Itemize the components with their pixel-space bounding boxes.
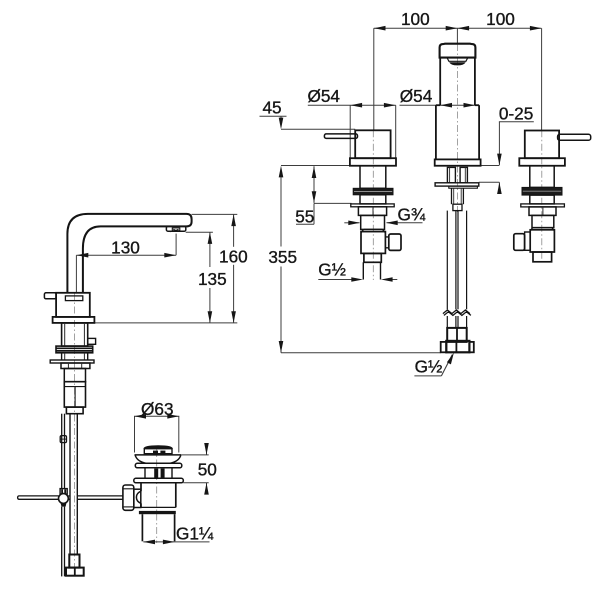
horizontal pop-up rod	[18, 496, 123, 499]
spout cap	[440, 44, 476, 58]
dimension 100/100 top line	[374, 28, 542, 130]
waste washer bar	[135, 463, 182, 468]
dimension 355 (shares top arrow with 45)	[281, 177, 441, 353]
spout mounting nut (right pipe)	[460, 167, 467, 182]
mounting nut (side)	[61, 363, 90, 369]
pop-up pull rod (vertical)	[62, 414, 65, 577]
dimension 160	[192, 214, 238, 323]
bottom block (side)	[66, 407, 83, 414]
svg-text:135: 135	[198, 269, 227, 289]
svg-text:Ø63: Ø63	[141, 399, 174, 419]
label G1 1/4 with dimension	[143, 541, 209, 543]
handle slot detail	[65, 296, 82, 301]
svg-text:G1¼: G1¼	[176, 524, 214, 544]
centerline spout	[456, 44, 458, 212]
left handle mounting nut	[358, 207, 386, 216]
left handle valve body	[361, 229, 385, 232]
right handle thread section	[532, 215, 554, 227]
right handle escutcheon flange	[519, 158, 565, 166]
seal stack (side)	[56, 346, 93, 353]
spout outline (side)	[67, 214, 191, 293]
dimension 135	[186, 232, 213, 323]
spout lower column (base sleeve)	[436, 105, 479, 159]
dimension Ø54 (spout)	[400, 104, 477, 106]
left handle G1/2 thread pipe	[363, 262, 380, 279]
right handle mounting washer	[521, 204, 565, 207]
centerline left handle	[372, 130, 374, 280]
left handle lever	[324, 134, 357, 139]
valve body (side)	[64, 382, 85, 407]
shank (side, double wall)	[62, 323, 88, 346]
spout mounting nut (left pipe)	[447, 167, 455, 182]
spout supply hoses	[447, 211, 466, 328]
drain centerline	[156, 446, 158, 543]
dimension 100 arrows	[374, 26, 542, 31]
shank below seals	[62, 353, 88, 360]
svg-text:100: 100	[401, 9, 430, 29]
dimension 45	[260, 116, 356, 165]
spout stud nut	[453, 204, 462, 210]
svg-text:130: 130	[111, 238, 140, 258]
spout aerator (side)	[166, 226, 185, 231]
centerline right handle	[541, 130, 543, 262]
dimension 130	[76, 234, 176, 292]
right handle outlet block	[514, 234, 525, 251]
right handle seal nut (dark)	[522, 187, 562, 195]
svg-text:50: 50	[198, 459, 217, 479]
ball joint	[59, 494, 69, 504]
left handle bottom stub	[364, 253, 381, 262]
svg-text:G½: G½	[318, 260, 346, 280]
hose break symbol	[443, 310, 470, 314]
thread section (side)	[64, 369, 85, 382]
side outlet tab	[88, 338, 96, 344]
right handle shank lower	[530, 195, 554, 204]
spout threaded stud	[452, 188, 464, 204]
waste body divider	[141, 506, 176, 508]
left handle shank lower	[360, 195, 386, 204]
spout G1/2 end cap	[446, 341, 469, 352]
svg-text:45: 45	[262, 98, 281, 118]
waste threaded neck	[145, 468, 172, 479]
handle lever tab (side)	[44, 293, 56, 299]
rod housing bulge	[136, 491, 141, 503]
label G1/2 (bottom, leader)	[441, 355, 452, 376]
funnel sides	[135, 455, 181, 463]
waste lower flange	[134, 478, 184, 483]
tailpipe	[142, 514, 174, 541]
rod housing cap nut	[123, 485, 134, 510]
svg-text:G½: G½	[415, 356, 443, 376]
svg-text:160: 160	[219, 247, 248, 267]
spout clamp plate	[435, 183, 479, 186]
svg-text:355: 355	[268, 247, 297, 267]
left handle seal nut (dark)	[353, 188, 393, 195]
left handle mounting washer	[351, 204, 394, 207]
svg-text:0-25: 0-25	[499, 103, 533, 123]
svg-text:55: 55	[295, 206, 314, 226]
spout aerator mouth	[447, 58, 468, 61]
right handle bottom stub	[533, 252, 552, 262]
left handle outlet neck	[385, 237, 388, 248]
plug cap dome (dark)	[144, 445, 173, 449]
left handle body	[355, 130, 390, 158]
spout deck flange	[435, 159, 481, 165]
mounting washer (side)	[50, 360, 94, 363]
handle body (side)	[56, 293, 90, 317]
plug cap body	[144, 449, 172, 454]
right handle body	[525, 131, 559, 159]
ball joint upper nut	[60, 489, 67, 495]
right handle outlet neck	[525, 232, 531, 250]
svg-text:Ø54: Ø54	[400, 86, 433, 106]
label G3/4 with leader dimension	[344, 222, 422, 224]
right handle mounting nut	[529, 207, 556, 216]
spout hose connector	[447, 328, 467, 342]
right handle shank	[530, 166, 554, 188]
dimension 55	[296, 166, 352, 224]
ball joint lower cone	[61, 503, 67, 506]
left handle G3/4 thread section	[361, 215, 385, 229]
left handle shank	[360, 166, 386, 189]
label G1/2 (left handle) with dimension	[318, 279, 397, 281]
rod adjuster fitting	[60, 436, 66, 443]
left handle escutcheon flange	[350, 158, 396, 166]
svg-text:Ø54: Ø54	[308, 86, 341, 106]
dimension 50	[181, 445, 209, 492]
deck extension line (left view)	[95, 322, 237, 324]
escutcheon (side)	[53, 317, 95, 323]
svg-text:G¾: G¾	[398, 205, 426, 225]
funnel rim	[135, 454, 182, 456]
waste body	[141, 483, 176, 508]
dimension Ø63	[134, 416, 179, 452]
left handle outlet block	[389, 234, 401, 250]
svg-text:100: 100	[486, 9, 515, 29]
supply hose connector	[69, 555, 79, 568]
supply hose (vertical)	[70, 414, 77, 555]
rod housing block	[134, 489, 141, 507]
dimension Ø54 (left handle)	[308, 105, 396, 158]
right handle valve body	[530, 228, 554, 231]
dimension 0-25	[479, 122, 534, 194]
right handle lever	[558, 134, 591, 140]
supply hose G1/2 end cap	[66, 568, 84, 576]
left view centerline	[74, 293, 76, 576]
spout upper column	[440, 58, 475, 106]
